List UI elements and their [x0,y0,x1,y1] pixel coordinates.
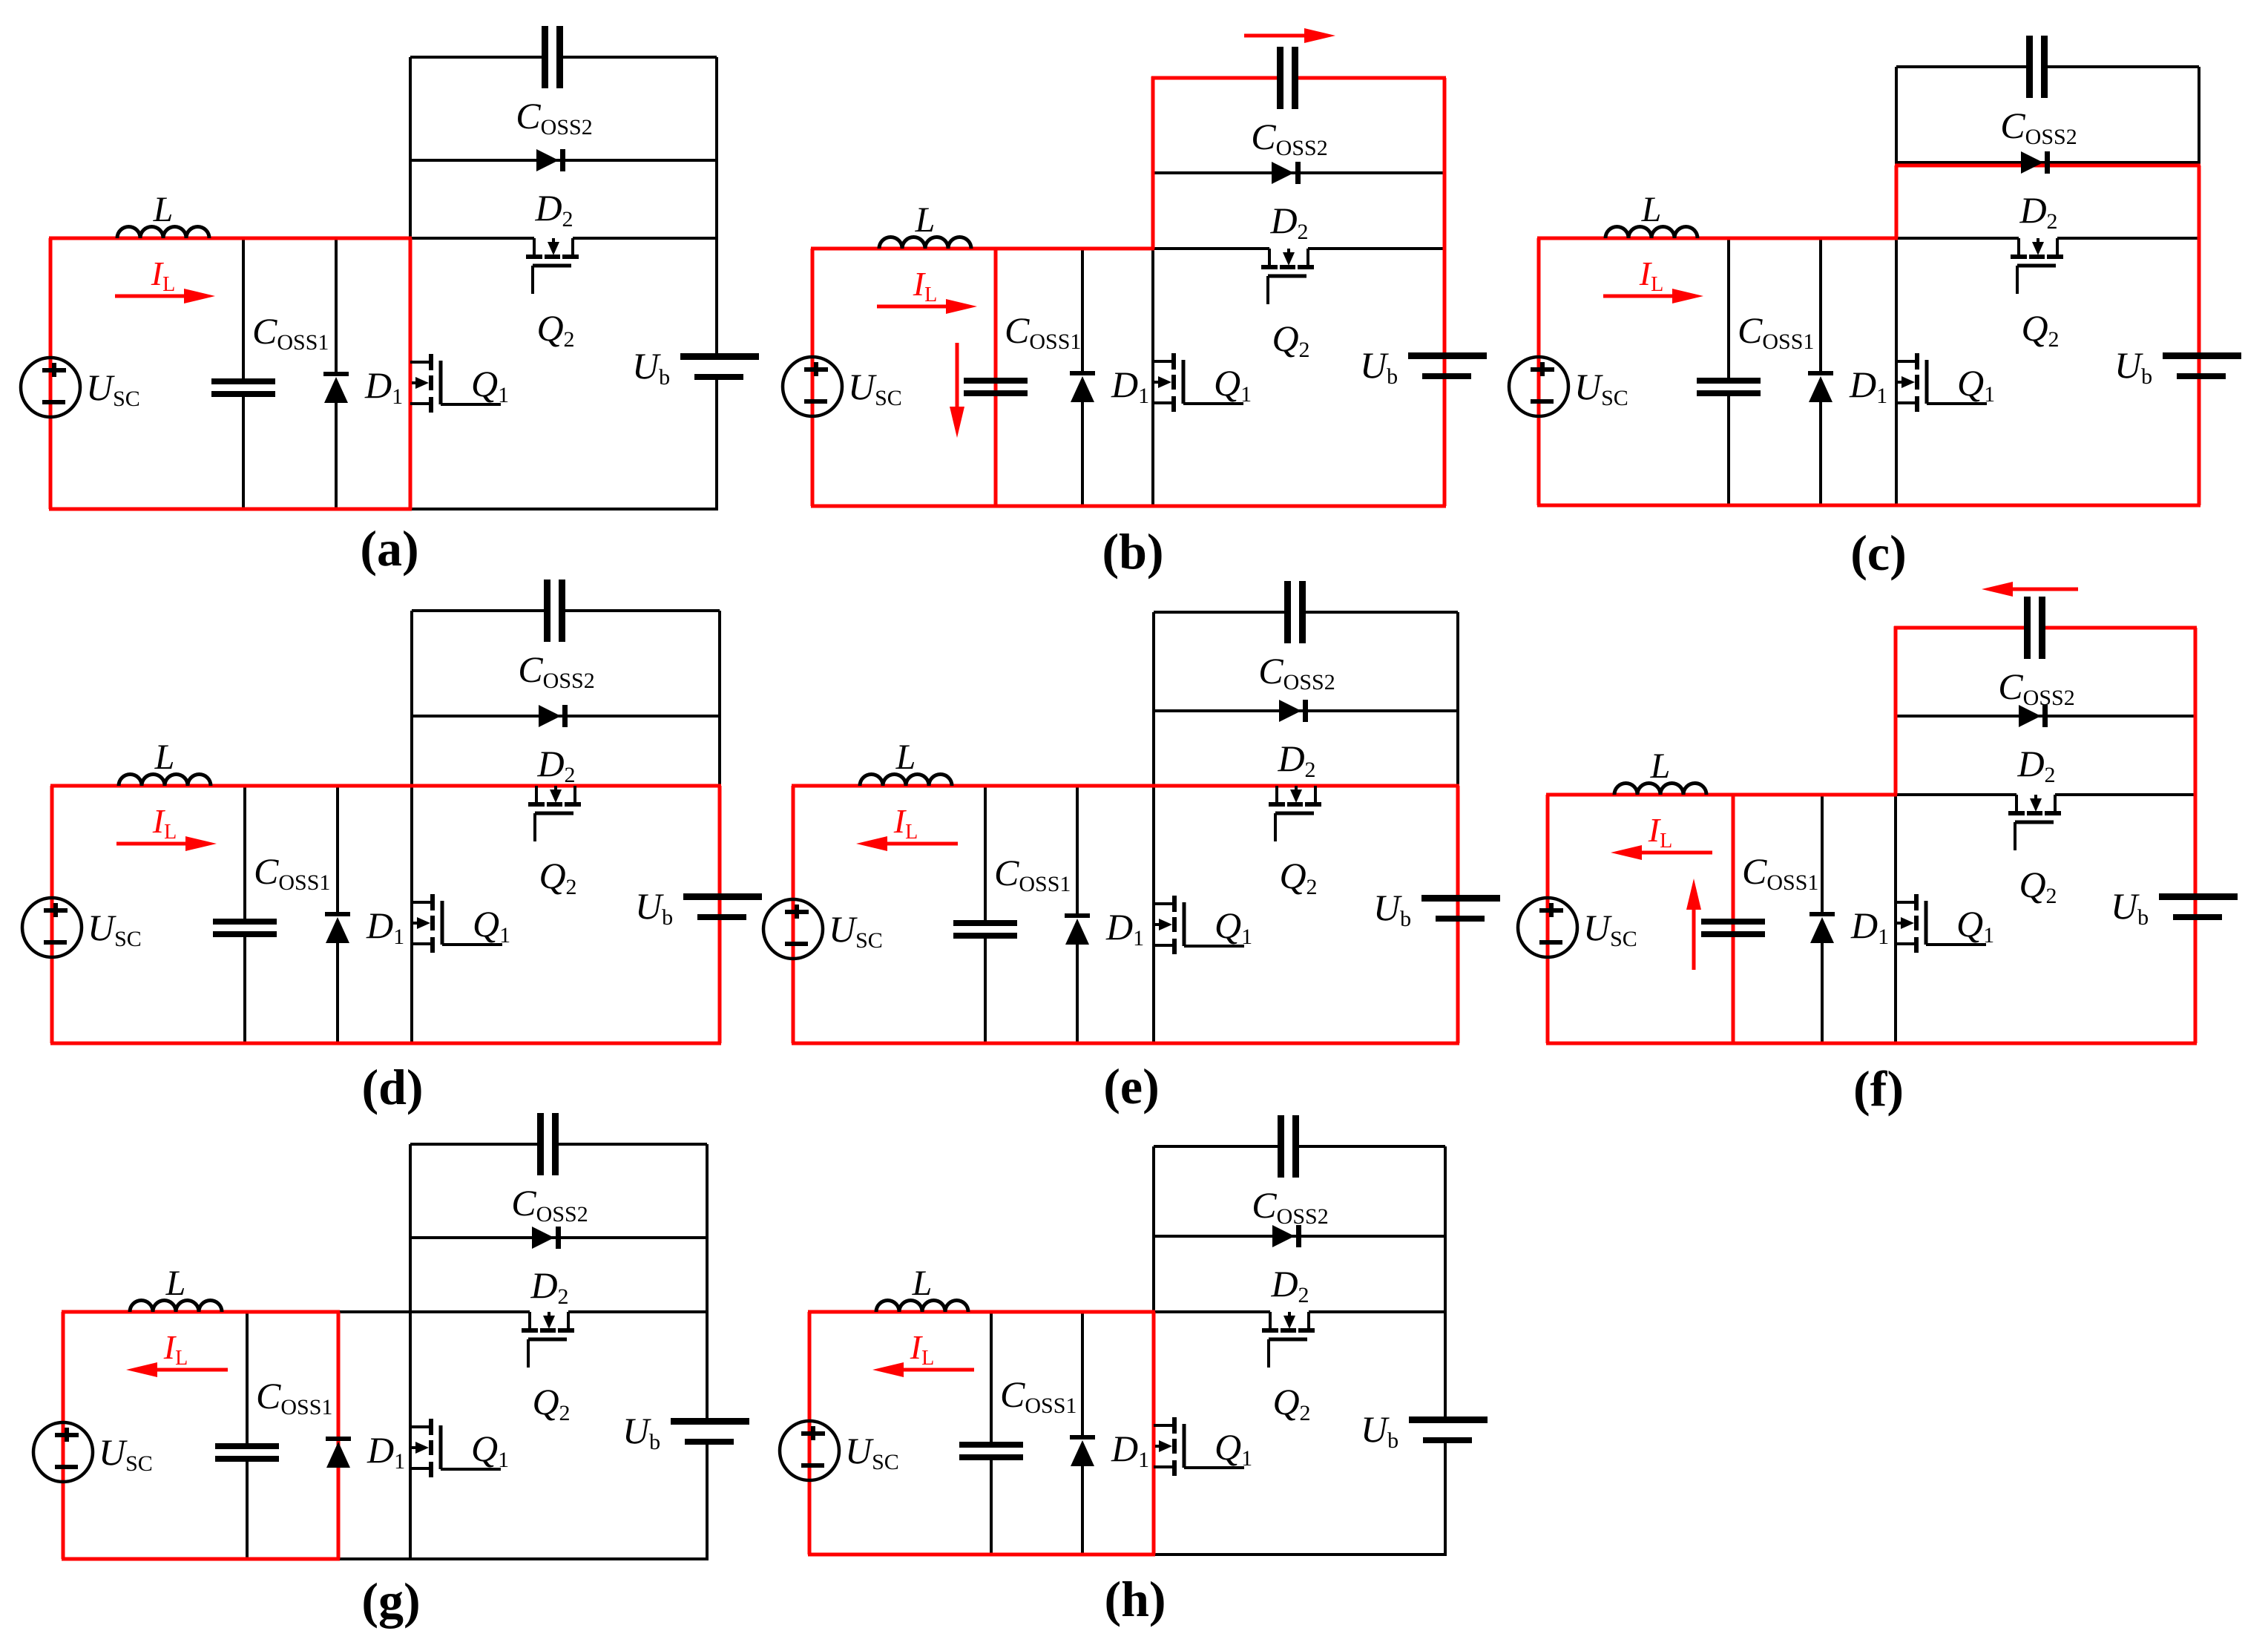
svg-text:L: L [895,738,916,777]
svg-text:(g): (g) [361,1572,420,1629]
svg-text:(h): (h) [1104,1571,1166,1627]
svg-text:L: L [154,738,175,777]
svg-text:L: L [1650,746,1671,786]
svg-text:(f): (f) [1853,1060,1904,1117]
svg-text:(a): (a) [360,520,418,577]
svg-text:L: L [1641,190,1662,229]
svg-text:L: L [165,1264,186,1303]
svg-text:(c): (c) [1850,525,1906,581]
svg-text:L: L [912,1264,933,1303]
svg-text:L: L [153,190,174,229]
svg-text:(e): (e) [1103,1058,1159,1114]
svg-text:(d): (d) [361,1059,423,1115]
svg-text:L: L [915,200,936,240]
svg-text:(b): (b) [1102,523,1163,580]
